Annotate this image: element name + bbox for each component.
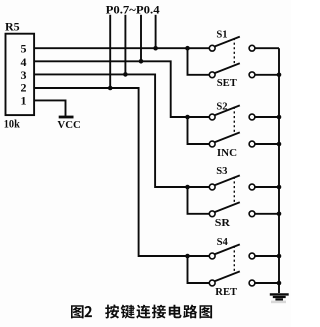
wire: S3 bottom-right to bus <box>255 213 279 215</box>
caption char 路 <box>183 305 197 319</box>
caption char 图 <box>71 305 84 318</box>
wire: S1 bottom-right to bus <box>255 74 279 76</box>
switch S1 top pole arm <box>215 37 240 47</box>
switch S4 top-right contact <box>249 253 255 259</box>
wire: S3 top-right to bus <box>255 186 279 188</box>
wire: P0.4 bus vertical <box>155 15 157 48</box>
node: P0.5 junction on pin-4 row <box>139 59 144 64</box>
switch S4 gang dashed link <box>233 246 235 273</box>
svg-text:1: 1 <box>21 93 27 107</box>
switch S2 top pole arm <box>215 105 240 115</box>
switch S4 bottom-right contact <box>249 280 255 286</box>
node: right bus junction <box>277 73 282 78</box>
switch S1 top-left contact <box>209 45 215 51</box>
node: right bus junction <box>277 281 282 286</box>
node: S4 left link junction <box>185 254 190 259</box>
switch S2 gang dashed link <box>233 107 235 134</box>
svg-text:S1: S1 <box>216 29 227 41</box>
switch S1 bottom pole arm <box>215 63 240 73</box>
caption char 2 <box>85 306 92 317</box>
switch S3 top pole arm <box>215 175 240 185</box>
svg-text:2: 2 <box>21 80 27 94</box>
switch S3 top-right contact <box>249 184 255 190</box>
wire: P0.7 bus vertical <box>109 15 111 88</box>
wire: pin 5 row to S1 <box>34 47 209 49</box>
svg-text:5: 5 <box>21 42 27 56</box>
caption char 电 <box>169 305 182 319</box>
switch S1 bottom-right contact <box>249 72 255 78</box>
svg-text:10k: 10k <box>4 117 20 131</box>
switch S1 top-right contact <box>249 45 255 51</box>
node: P0.7 junction on pin-2 row <box>108 86 113 91</box>
resistor network R5 box <box>6 34 35 115</box>
switch S2 bottom pole arm <box>215 132 240 142</box>
wire: S1 left link vertical <box>188 48 210 75</box>
node: S2 left link junction <box>185 115 190 120</box>
switch S1 bottom-left contact <box>209 72 215 78</box>
switch S2 bottom-right contact <box>249 141 255 147</box>
svg-text:SR: SR <box>215 217 231 229</box>
wire: pin 1 row to VCC <box>34 100 66 116</box>
svg-text:RET: RET <box>215 286 237 298</box>
wire: S4 bottom-right to bus <box>255 282 279 284</box>
svg-text:S4: S4 <box>217 236 229 248</box>
svg-text:INC: INC <box>217 147 237 159</box>
node: right bus junction <box>277 142 282 147</box>
switch S1 gang dashed link <box>233 38 235 64</box>
node: S1 left link junction <box>185 46 190 51</box>
switch S4 top-left contact <box>209 253 215 259</box>
svg-text:P0.7~P0.4: P0.7~P0.4 <box>106 2 160 16</box>
wire: pin 2 row to S4 <box>34 88 209 256</box>
wire: S4 left link vertical <box>188 256 210 283</box>
caption char 接 <box>152 305 166 319</box>
svg-text:R5: R5 <box>5 19 20 33</box>
wire: right ground bus <box>278 48 280 293</box>
switch S4 bottom pole arm <box>215 271 240 281</box>
switch S2 bottom-left contact <box>209 141 215 147</box>
switch S4 bottom-left contact <box>209 280 215 286</box>
switch S3 top-left contact <box>209 184 215 190</box>
wire: pin 4 row to S2 <box>34 61 209 117</box>
ground shadow artifact <box>271 301 286 304</box>
switch S3 bottom-right contact <box>249 211 255 217</box>
switch S2 top-left contact <box>209 114 215 120</box>
caption 图2 按键连接电路图 <box>71 305 212 319</box>
svg-text:VCC: VCC <box>57 119 80 131</box>
wire: P0.6 bus vertical <box>124 15 126 75</box>
switch S4 top pole arm <box>215 244 240 254</box>
switch S2 top-right contact <box>249 114 255 120</box>
svg-text:S2: S2 <box>216 100 228 112</box>
caption char 按 <box>105 305 119 319</box>
ground symbol <box>270 294 289 299</box>
power symbol VCC bar <box>59 116 74 119</box>
node: P0.6 junction on pin-3 row <box>123 72 128 77</box>
caption char 连 <box>136 305 150 319</box>
wire: S4 top-right to bus <box>255 255 279 257</box>
svg-text:S3: S3 <box>216 165 228 177</box>
wire: pin 3 row to S3 <box>34 74 209 187</box>
wire: S3 left link vertical <box>188 187 210 214</box>
wire: S2 top-right to bus <box>255 116 279 118</box>
switch S3 bottom pole arm <box>215 202 240 212</box>
node: S3 left link junction <box>185 185 190 190</box>
caption char 图 <box>200 305 213 318</box>
switch S3 bottom-left contact <box>209 211 215 217</box>
node: right bus junction <box>277 212 282 217</box>
node: right bus junction <box>277 185 282 190</box>
node: P0.4 junction on pin-5 row <box>153 46 158 51</box>
wire: S2 bottom-right to bus <box>255 143 279 145</box>
node: right bus junction <box>277 115 282 120</box>
node: right bus junction <box>277 254 282 259</box>
wire: P0.5 bus vertical <box>140 15 142 62</box>
wire: S2 left link vertical <box>188 117 210 144</box>
switch S3 gang dashed link <box>233 177 235 204</box>
wire: S1 top-right to bus <box>255 47 279 49</box>
svg-text:SET: SET <box>217 77 238 89</box>
caption char 键 <box>121 305 135 319</box>
